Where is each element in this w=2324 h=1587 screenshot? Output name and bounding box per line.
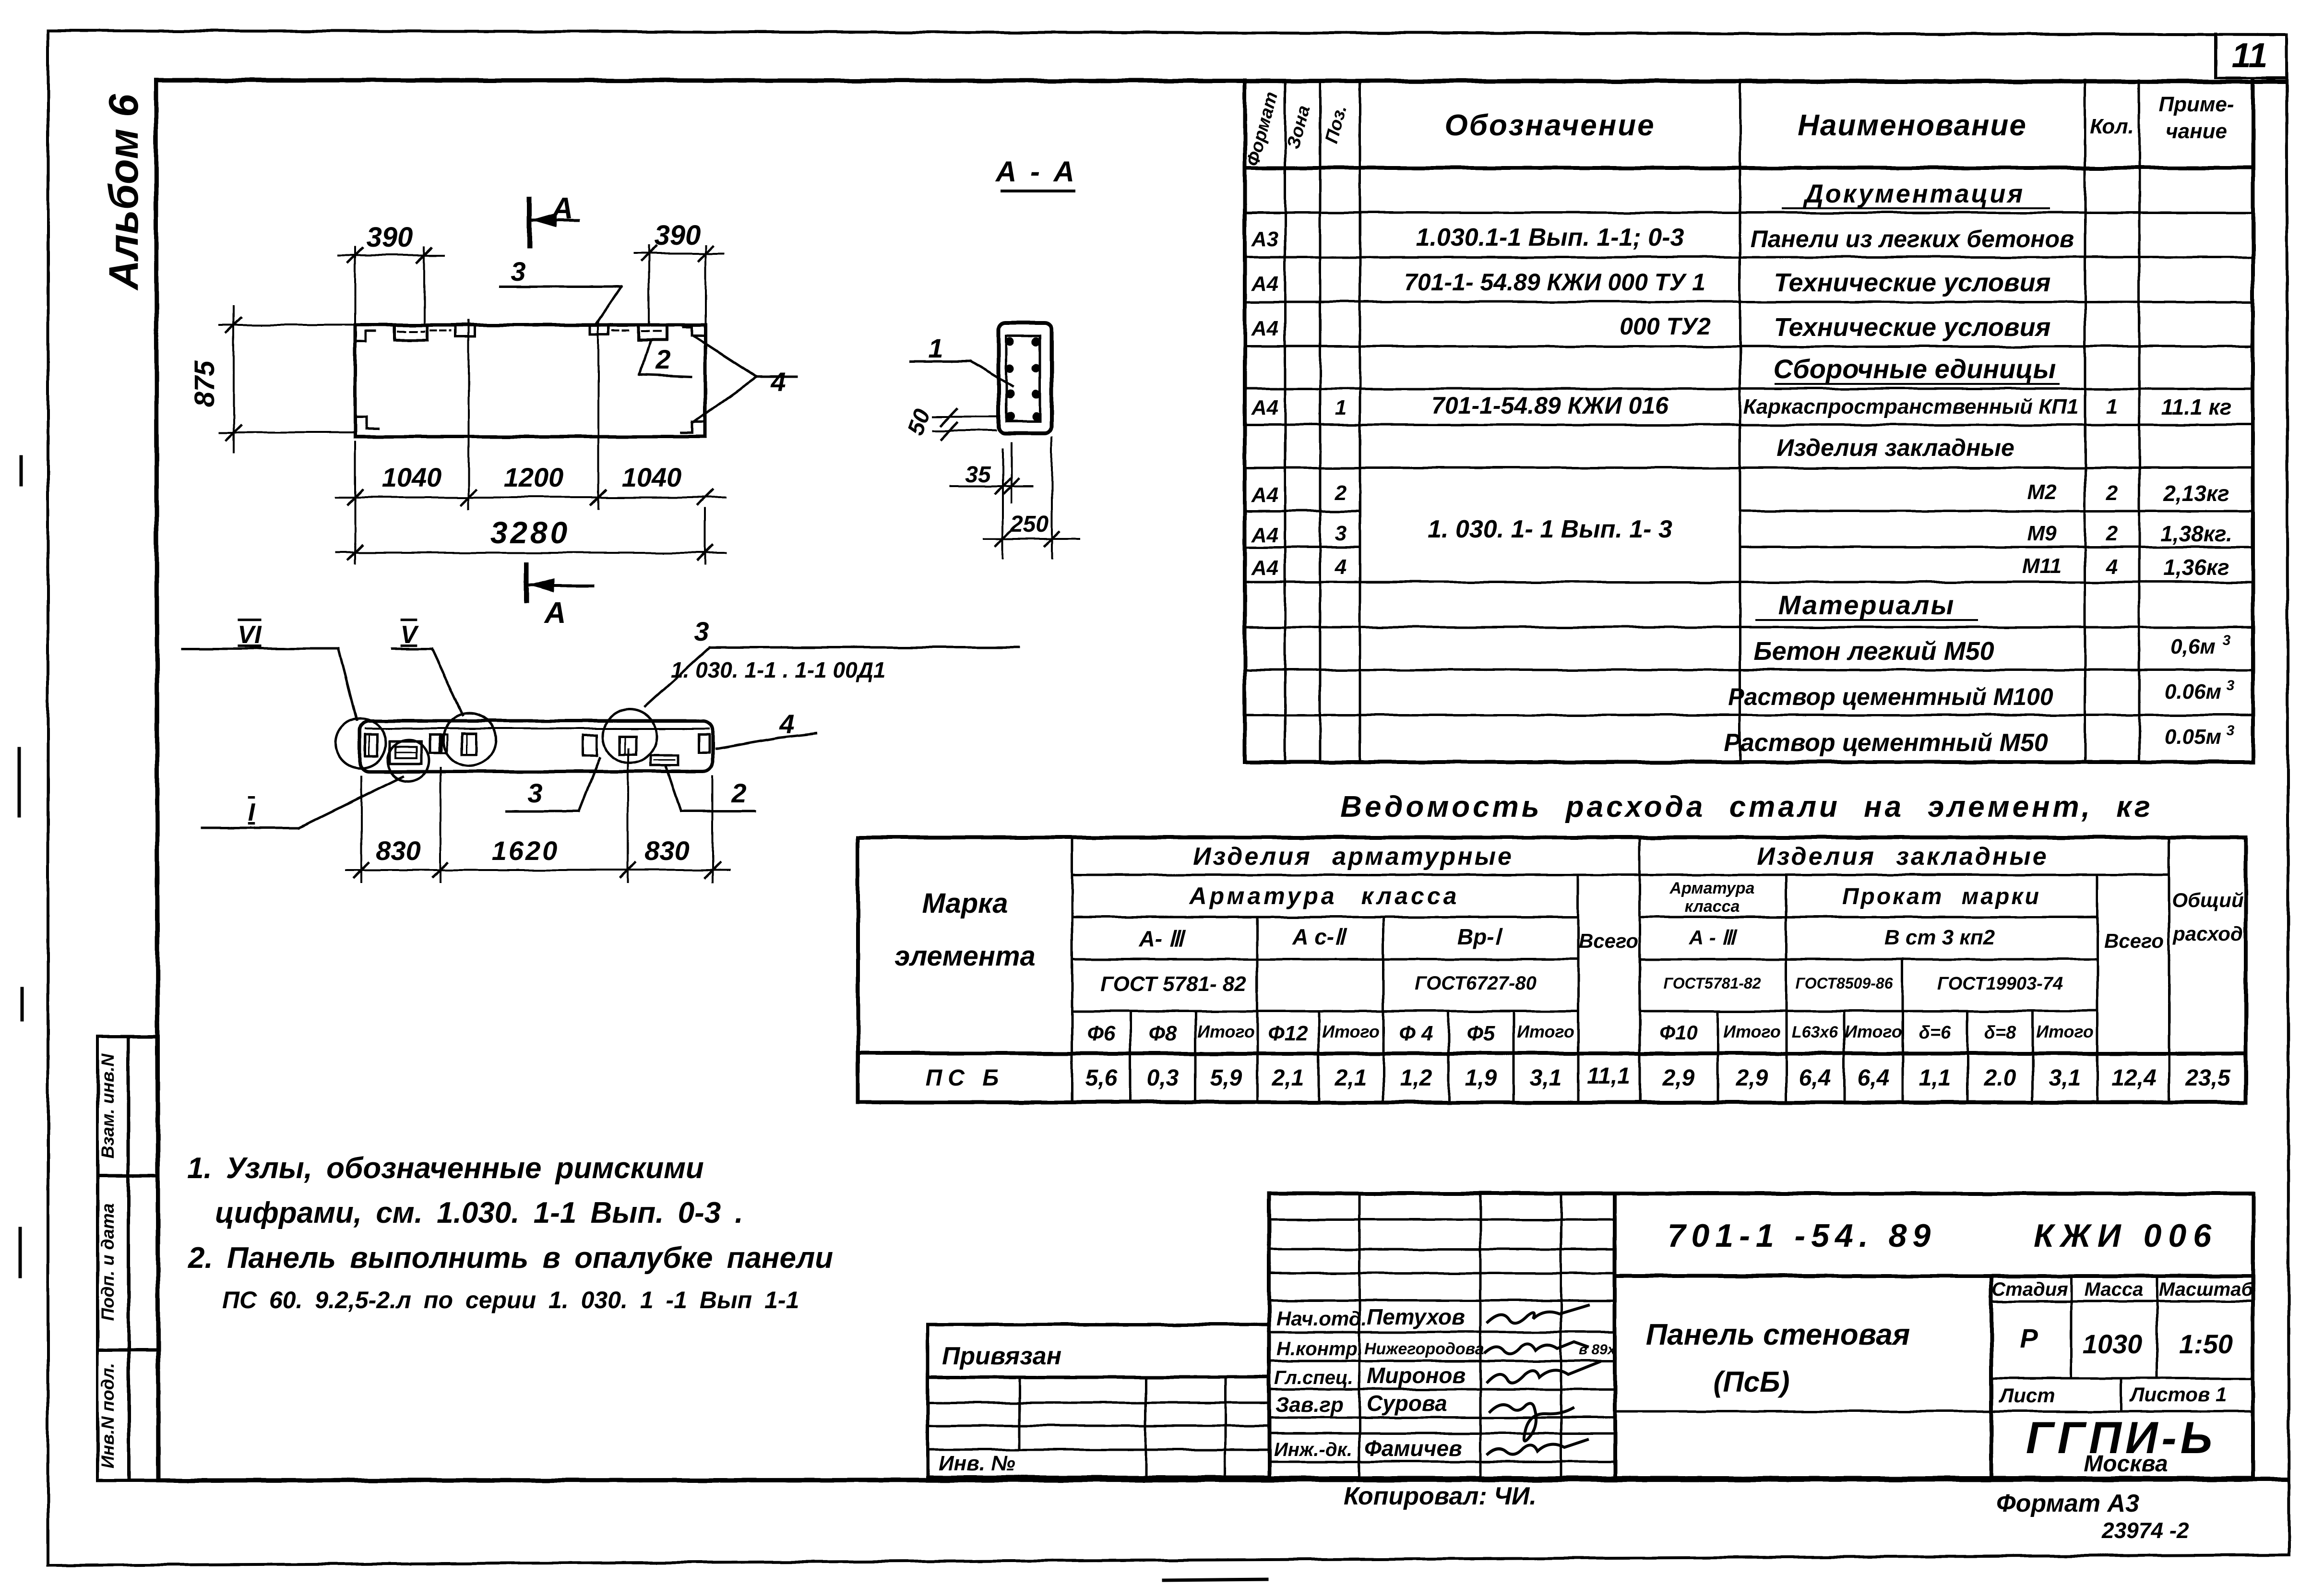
svg-text:1200: 1200 — [504, 462, 564, 492]
svg-text:Н.контр.: Н.контр. — [1276, 1338, 1363, 1360]
svg-text:в 89х: в 89х — [1579, 1342, 1616, 1358]
svg-text:Альбом 6: Альбом 6 — [101, 94, 147, 291]
svg-text:Раствор цементный М100: Раствор цементный М100 — [1728, 683, 2053, 710]
svg-text:11: 11 — [2232, 36, 2268, 75]
svg-text:4: 4 — [2106, 555, 2118, 579]
svg-text:Общий: Общий — [2172, 889, 2243, 911]
detail circle 3 — [603, 709, 657, 763]
svg-text:2,9: 2,9 — [1736, 1065, 1768, 1091]
rebar cage — [1006, 336, 1040, 421]
svg-text:390: 390 — [367, 222, 413, 253]
svg-text:КЖИ 006: КЖИ 006 — [2034, 1217, 2218, 1254]
svg-text:1030: 1030 — [2083, 1329, 2143, 1359]
svg-text:А: А — [544, 597, 566, 630]
svg-text:830: 830 — [376, 835, 420, 866]
svg-text:701-1- 54.89 КЖИ 000 ТУ 1: 701-1- 54.89 КЖИ 000 ТУ 1 — [1404, 269, 1705, 296]
svg-text:Поз.: Поз. — [1322, 103, 1351, 146]
svg-text:Инж.-дк.: Инж.-дк. — [1274, 1439, 1352, 1460]
svg-text:3280: 3280 — [490, 515, 570, 550]
svg-text:А с-Ⅱ: А с-Ⅱ — [1292, 924, 1347, 949]
top notch 4 — [638, 325, 666, 340]
embed f — [620, 736, 636, 754]
svg-text:Копировал: ЧИ.: Копировал: ЧИ. — [1344, 1482, 1537, 1510]
dashes after notch1 — [430, 329, 451, 331]
svg-text:Вр-Ⅰ: Вр-Ⅰ — [1457, 924, 1503, 949]
label 2 bottom leader — [681, 810, 755, 812]
svg-text:1040: 1040 — [382, 462, 442, 492]
svg-text:А - Ⅲ: А - Ⅲ — [1689, 926, 1738, 949]
svg-text:Панель стеновая: Панель стеновая — [1646, 1318, 1910, 1351]
steel table data row — [926, 1063, 2231, 1091]
svg-text:Ф10: Ф10 — [1659, 1021, 1698, 1044]
embed a — [365, 734, 377, 756]
svg-text:Инв. №: Инв. № — [939, 1452, 1015, 1475]
dim 50 — [933, 416, 999, 418]
svg-text:Сборочные единицы: Сборочные единицы — [1774, 354, 2056, 384]
svg-text:3: 3 — [511, 256, 525, 286]
dim 390 right — [648, 246, 650, 325]
svg-text:1,36кг: 1,36кг — [2163, 555, 2229, 580]
spec table rows text — [1251, 179, 2235, 757]
svg-text:Каркаспространственный КП1: Каркаспространственный КП1 — [1743, 395, 2079, 418]
svg-text:М9: М9 — [2027, 522, 2057, 545]
svg-text:расход: расход — [2172, 922, 2243, 945]
svg-text:Стадия: Стадия — [1991, 1279, 2068, 1300]
section texts — [903, 333, 1049, 537]
scan edge artifacts — [19, 457, 1267, 1580]
svg-text:Ф12: Ф12 — [1268, 1022, 1308, 1045]
section mark A top — [527, 199, 532, 246]
dim 390 left — [354, 247, 356, 325]
svg-text:2,9: 2,9 — [1662, 1065, 1695, 1091]
svg-text:А- Ⅲ: А- Ⅲ — [1138, 926, 1186, 951]
embed e — [583, 735, 597, 756]
svg-text:Изделия закладные: Изделия закладные — [1757, 843, 2048, 871]
svg-text:В ст 3 кп2: В ст 3 кп2 — [1884, 926, 1995, 949]
extension vertical at 1247 — [597, 321, 599, 509]
svg-text:Формат: Формат — [1243, 90, 1282, 168]
svg-text:000 ТУ2: 000 ТУ2 — [1620, 313, 1711, 340]
svg-text:А4: А4 — [1251, 556, 1278, 580]
svg-text:35: 35 — [965, 462, 991, 488]
corner step top-left — [355, 331, 375, 342]
label 3 top leader — [710, 646, 1018, 649]
svg-text:Кол.: Кол. — [2090, 115, 2134, 138]
svg-text:Масса: Масса — [2085, 1279, 2144, 1300]
svg-text:2.0: 2.0 — [1984, 1065, 2016, 1091]
svg-text:А4: А4 — [1251, 483, 1278, 507]
svg-text:23974 -2: 23974 -2 — [2101, 1518, 2189, 1543]
svg-text:6,4: 6,4 — [1799, 1065, 1831, 1091]
section mark A bottom — [524, 565, 529, 601]
svg-text:А4: А4 — [1251, 317, 1278, 340]
svg-text:ГОСТ6727-80: ГОСТ6727-80 — [1415, 973, 1537, 994]
svg-text:Подп. и дата: Подп. и дата — [98, 1203, 118, 1321]
svg-text:Москва: Москва — [2084, 1451, 2168, 1477]
svg-text:1620: 1620 — [492, 835, 560, 866]
svg-text:Масштаб: Масштаб — [2159, 1279, 2254, 1300]
svg-text:Марка: Марка — [922, 888, 1008, 919]
svg-text:Арматура класса: Арматура класса — [1189, 883, 1460, 909]
embed b (detail I part) — [390, 741, 421, 764]
detail circle V — [443, 713, 496, 766]
svg-text:3: 3 — [1335, 522, 1347, 545]
svg-text:2,1: 2,1 — [1335, 1065, 1367, 1091]
dim 1040/1200/1040 — [336, 496, 726, 498]
dim 875 — [220, 324, 355, 326]
extension vertical at 977 — [468, 321, 470, 509]
svg-text:Петухов: Петухов — [1367, 1304, 1465, 1329]
svg-text:Итого: Итого — [1197, 1022, 1255, 1041]
svg-text:Формат А3: Формат А3 — [1996, 1490, 2139, 1517]
svg-text:5,9: 5,9 — [1210, 1065, 1242, 1091]
elevation texts — [238, 616, 794, 866]
svg-text:Итого: Итого — [2036, 1022, 2094, 1041]
detail circle I — [388, 740, 429, 781]
svg-text:2: 2 — [2106, 481, 2118, 505]
notes text — [187, 1152, 833, 1313]
svg-text:701-1 -54. 89: 701-1 -54. 89 — [1668, 1217, 1937, 1254]
dim 35 — [1002, 449, 1004, 558]
svg-text:Листов 1: Листов 1 — [2129, 1383, 2227, 1406]
svg-text:элемента: элемента — [894, 941, 1036, 972]
svg-text:4: 4 — [779, 709, 794, 739]
svg-text:4: 4 — [1335, 555, 1347, 579]
svg-text:Зав.гр: Зав.гр — [1275, 1393, 1344, 1417]
svg-text:Всего: Всего — [1579, 930, 1638, 952]
svg-text:чание: чание — [2166, 119, 2227, 143]
page number box — [2216, 34, 2287, 78]
svg-text:4: 4 — [770, 367, 786, 397]
svg-text:3: 3 — [694, 616, 709, 646]
svg-text:δ=6: δ=6 — [1919, 1023, 1951, 1043]
svg-text:Итого: Итого — [1322, 1022, 1380, 1041]
svg-text:3: 3 — [2227, 723, 2235, 739]
callout 3 leader — [501, 286, 621, 288]
svg-text:Привязан: Привязан — [942, 1342, 1061, 1370]
svg-text:1. 030. 1-1 . 1-1 00Д1: 1. 030. 1-1 . 1-1 00Д1 — [671, 657, 886, 682]
embed g flat — [651, 755, 678, 765]
svg-text:А: А — [551, 192, 573, 225]
svg-text:Наименование: Наименование — [1798, 109, 2027, 142]
left stamp strip — [97, 1037, 158, 1480]
corner step bottom-right — [681, 422, 705, 433]
title block signatures — [1274, 1304, 1484, 1461]
svg-text:V: V — [401, 621, 419, 649]
svg-text:0.05м: 0.05м — [2165, 725, 2221, 749]
svg-text:1: 1 — [2106, 395, 2118, 418]
label VI leader — [182, 648, 339, 650]
dim 830/1620/830 — [360, 776, 362, 882]
svg-text:ГОСТ19903-74: ГОСТ19903-74 — [1937, 974, 2063, 994]
svg-text:875: 875 — [189, 360, 220, 407]
label I leader — [202, 827, 298, 829]
embed c pair — [430, 735, 440, 753]
svg-text:12,4: 12,4 — [2111, 1065, 2156, 1091]
svg-text:1,38кг.: 1,38кг. — [2160, 521, 2232, 546]
svg-text:1,1: 1,1 — [1919, 1065, 1951, 1091]
specification table grid — [1245, 80, 2253, 762]
svg-text:701-1-54.89 КЖИ 016: 701-1-54.89 КЖИ 016 — [1431, 392, 1669, 419]
svg-text:Документация: Документация — [1803, 179, 2025, 208]
panel outline elevation — [360, 721, 713, 772]
steel table grid — [858, 837, 2246, 1102]
svg-text:1,2: 1,2 — [1400, 1065, 1432, 1091]
svg-text:Изделия закладные: Изделия закладные — [1776, 434, 2014, 461]
svg-text:0,6м: 0,6м — [2170, 635, 2216, 658]
svg-text:Нижегородова: Нижегородова — [1364, 1340, 1484, 1358]
spec table headers — [1243, 90, 2234, 168]
svg-text:ГОСТ8509-86: ГОСТ8509-86 — [1796, 975, 1893, 992]
svg-text:1040: 1040 — [622, 462, 682, 492]
panel outline plan — [355, 325, 705, 437]
section outline — [999, 323, 1051, 433]
svg-text:Зона: Зона — [1283, 103, 1314, 151]
svg-text:А4: А4 — [1251, 524, 1278, 547]
svg-text:Итого: Итого — [1517, 1022, 1574, 1041]
label V leader — [393, 648, 432, 650]
svg-text:11,1: 11,1 — [1587, 1063, 1630, 1089]
svg-text:Ф5: Ф5 — [1467, 1022, 1495, 1045]
top notch 1 — [395, 325, 427, 340]
callout 1 leader — [911, 360, 970, 363]
svg-text:1: 1 — [928, 333, 943, 363]
svg-text:А - А: А - А — [995, 155, 1077, 188]
privyazan stamp table — [928, 1324, 1269, 1477]
svg-text:Нач.отд.: Нач.отд. — [1276, 1307, 1367, 1330]
svg-text:(ПсБ): (ПсБ) — [1714, 1366, 1790, 1398]
svg-text:Приме-: Приме- — [2158, 93, 2234, 116]
svg-text:Технические условия: Технические условия — [1774, 268, 2051, 297]
svg-text:2,13кг: 2,13кг — [2163, 481, 2229, 506]
svg-text:ПС Б: ПС Б — [926, 1065, 1005, 1091]
svg-text:L63x6: L63x6 — [1792, 1023, 1838, 1041]
plan view texts — [189, 192, 786, 630]
svg-text:М11: М11 — [2022, 554, 2062, 578]
svg-text:3,1: 3,1 — [1530, 1065, 1562, 1091]
label 3 bottom leader — [507, 810, 579, 812]
svg-text:Бетон легкий М50: Бетон легкий М50 — [1753, 637, 1994, 666]
svg-text:Изделия арматурные: Изделия арматурные — [1193, 843, 1514, 871]
svg-text:2. Панель выполнить в опалу: 2. Панель выполнить в опалубке панели — [188, 1241, 833, 1275]
label 4 leader — [716, 738, 778, 749]
svg-text:0,3: 0,3 — [1147, 1065, 1179, 1091]
svg-text:2: 2 — [2106, 522, 2118, 545]
svg-text:3: 3 — [527, 778, 542, 808]
svg-text:Миронов: Миронов — [1367, 1363, 1466, 1388]
svg-text:2,1: 2,1 — [1272, 1065, 1304, 1091]
svg-text:Ф8: Ф8 — [1149, 1022, 1177, 1045]
svg-text:Технические условия: Технические условия — [1774, 313, 2051, 342]
svg-text:3: 3 — [2227, 678, 2235, 693]
svg-text:Прокат марки: Прокат марки — [1842, 884, 2041, 909]
svg-text:23,5: 23,5 — [2185, 1065, 2231, 1091]
svg-text:5,6: 5,6 — [1085, 1065, 1118, 1091]
svg-text:390: 390 — [655, 220, 701, 251]
svg-text:1.030.1-1 Вып. 1-1; 0-3: 1.030.1-1 Вып. 1-1; 0-3 — [1416, 224, 1684, 251]
svg-text:Раствор цементный М50: Раствор цементный М50 — [1724, 729, 2048, 757]
svg-text:3: 3 — [2223, 632, 2231, 648]
svg-text:А4: А4 — [1251, 396, 1278, 419]
dim 3280 — [354, 441, 356, 564]
top notch 2 — [456, 325, 475, 336]
svg-text:Ф6: Ф6 — [1087, 1022, 1116, 1045]
svg-text:2: 2 — [655, 344, 670, 374]
svg-text:1. Узлы, обозначенные римски: 1. Узлы, обозначенные римскими — [187, 1152, 704, 1185]
svg-text:11.1 кг: 11.1 кг — [2161, 394, 2232, 419]
svg-text:Ведомость расхода стали на: Ведомость расхода стали на элемент, кг — [1340, 790, 2153, 823]
svg-text:50: 50 — [903, 406, 935, 439]
svg-text:А3: А3 — [1251, 227, 1278, 251]
title block grid — [1269, 1193, 2253, 1478]
dashes after notch3 — [612, 329, 632, 331]
svg-text:Ф 4: Ф 4 — [1399, 1022, 1433, 1045]
embed d — [462, 733, 476, 754]
PLAN VIEW — [220, 199, 797, 601]
svg-text:М2: М2 — [2027, 480, 2057, 504]
svg-text:1,9: 1,9 — [1465, 1065, 1497, 1091]
callout 4 leaders — [693, 336, 757, 377]
svg-text:ГОСТ 5781- 82: ГОСТ 5781- 82 — [1100, 972, 1246, 996]
svg-text:830: 830 — [644, 835, 689, 866]
svg-text:класса: класса — [1685, 897, 1740, 916]
svg-text:2: 2 — [731, 778, 746, 808]
svg-text:цифрами, см. 1.030. 1-1 Вып.: цифрами, см. 1.030. 1-1 Вып. 0-3 . — [215, 1196, 743, 1229]
svg-text:1. 030. 1- 1 Вып. 1- 3: 1. 030. 1- 1 Вып. 1- 3 — [1428, 515, 1672, 543]
svg-text:δ=8: δ=8 — [1984, 1023, 2016, 1043]
corner step top-right — [683, 327, 705, 336]
corner step bottom-left — [355, 417, 379, 429]
svg-text:Материалы: Материалы — [1778, 590, 1955, 620]
svg-text:Обозначение: Обозначение — [1444, 109, 1655, 142]
dim 250 — [1051, 437, 1053, 558]
embed h — [699, 734, 709, 752]
svg-text:1: 1 — [1335, 396, 1347, 419]
svg-text:ГОСТ5781-82: ГОСТ5781-82 — [1664, 975, 1761, 992]
svg-text:250: 250 — [1010, 512, 1049, 537]
svg-text:Инв.N подл.: Инв.N подл. — [98, 1363, 118, 1468]
signature squiggles — [1485, 1305, 1616, 1455]
svg-text:VI: VI — [238, 621, 262, 649]
svg-text:Панели из легких бетонов: Панели из легких бетонов — [1751, 226, 2074, 252]
ELEVATION VIEW — [182, 647, 1018, 882]
detail circle VI — [336, 718, 386, 768]
svg-text:ПС 60. 9.2,5-2.л по серии 1.: ПС 60. 9.2,5-2.л по серии 1. 030. 1 -1 В… — [222, 1287, 799, 1313]
svg-text:Итого: Итого — [1845, 1022, 1902, 1041]
svg-text:Взам. инв.N: Взам. инв.N — [98, 1053, 118, 1159]
rebar dots — [1006, 337, 1040, 421]
svg-text:0.06м: 0.06м — [2165, 680, 2221, 704]
svg-text:3,1: 3,1 — [2049, 1065, 2081, 1091]
svg-text:А4: А4 — [1251, 272, 1278, 296]
svg-text:Всего: Всего — [2104, 930, 2164, 952]
svg-text:Гл.спец.: Гл.спец. — [1274, 1367, 1353, 1388]
svg-text:Сурова: Сурова — [1367, 1391, 1447, 1416]
callout 2 leader — [640, 341, 650, 375]
svg-text:Лист: Лист — [1998, 1384, 2055, 1407]
svg-text:Фамичев: Фамичев — [1364, 1436, 1462, 1461]
svg-text:6,4: 6,4 — [1858, 1065, 1890, 1091]
svg-text:Итого: Итого — [1723, 1022, 1781, 1041]
svg-text:Арматура: Арматура — [1669, 879, 1755, 897]
svg-text:2: 2 — [1335, 481, 1347, 505]
svg-text:1:50: 1:50 — [2179, 1329, 2233, 1359]
top notch 3 — [590, 325, 608, 334]
steel table header text — [894, 843, 2243, 1045]
svg-text:I: I — [248, 799, 256, 826]
svg-text:Р: Р — [2020, 1323, 2038, 1353]
